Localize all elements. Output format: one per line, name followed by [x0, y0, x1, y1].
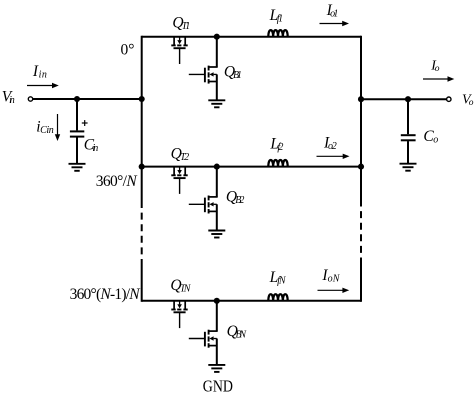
arrow iCin: [55, 114, 60, 141]
transistor QB2: [189, 167, 218, 231]
transistor QT1: [171, 37, 187, 64]
wire input bus dashed: [141, 201, 143, 260]
ground Cin: [69, 164, 86, 171]
terminal Vin: [28, 97, 32, 101]
inductor Lf1: [268, 30, 287, 37]
terminal Vo: [447, 97, 451, 101]
wire phaseN: [142, 300, 361, 302]
svg-text:0°: 0°: [121, 41, 135, 58]
junction bus/phase2: [139, 164, 145, 170]
ground Co: [400, 164, 417, 171]
transistor QTN: [171, 302, 187, 329]
wire output bus solid upper: [360, 36, 362, 200]
arrow Io1: [320, 21, 350, 26]
wire input rail: [33, 98, 142, 100]
capacitor Co: [401, 99, 416, 163]
junction Co: [405, 96, 411, 102]
node phaseN: [214, 298, 220, 304]
junction input/Cin: [74, 96, 80, 102]
transistor QT2: [171, 167, 187, 194]
node phase2: [214, 164, 220, 170]
inductor LfN: [268, 294, 287, 301]
capacitor Cin: [70, 99, 88, 163]
ground QBN: [208, 365, 225, 372]
wire output bus dashed: [360, 200, 362, 261]
junction bus/output rail: [358, 96, 364, 102]
svg-text:360°/N: 360°/N: [96, 173, 139, 190]
svg-text:360°(N-1)/N: 360°(N-1)/N: [70, 286, 142, 303]
wire phase2: [142, 166, 361, 168]
node phase1: [214, 34, 220, 40]
wire output rail: [361, 98, 446, 100]
transistor QBN: [189, 301, 218, 365]
ground QB2: [208, 231, 225, 238]
wire phase1: [142, 36, 361, 38]
arrow Iin: [27, 83, 59, 88]
inductor Lf2: [268, 160, 287, 167]
transistor QB1: [189, 37, 218, 100]
wire output bus solid lower: [360, 260, 362, 302]
arrow Io: [423, 76, 454, 81]
wire input bus solid lower: [141, 260, 143, 302]
junction bus/input rail: [139, 96, 145, 102]
svg-text:GND: GND: [203, 377, 233, 395]
wire input bus solid upper: [141, 36, 143, 201]
arrow Io2: [317, 154, 350, 159]
ground QB1: [208, 100, 225, 107]
junction bus/phase2 out: [358, 164, 364, 170]
arrow IoN: [318, 288, 350, 293]
